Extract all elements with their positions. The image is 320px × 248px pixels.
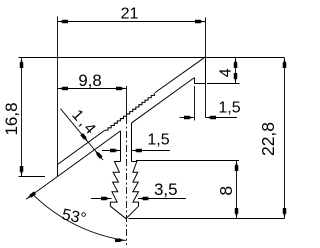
dimension 1,5 hook extension line — [194, 86, 196, 121]
profile hook notch bottom — [195, 83, 206, 85]
dimension 1,5 hook line — [180, 117, 195, 119]
stem centreline — [126, 86, 128, 117]
stem left wall — [120, 131, 122, 162]
svg-text:1,5: 1,5 — [147, 132, 169, 149]
dimension 1,4 leader line — [61, 109, 104, 160]
stem right wall — [131, 123, 133, 162]
dimension 21 right extension line — [205, 18, 207, 118]
svg-text:21: 21 — [121, 5, 139, 22]
svg-text:22,8: 22,8 — [258, 122, 278, 156]
dimension 16,8 line — [21, 58, 23, 177]
dimension 16,8 bottom extension line — [19, 176, 46, 178]
dimension 53deg leg line — [26, 177, 58, 200]
svg-text:9,8: 9,8 — [78, 71, 101, 90]
profile top edge serrated section — [105, 93, 154, 130]
dimension 4 bottom extension line — [207, 83, 240, 85]
svg-text:1,5: 1,5 — [218, 100, 240, 117]
profile bottom edge right of stem — [132, 78, 195, 123]
dimension 9,8 line — [58, 88, 127, 90]
dimension 21 line — [58, 21, 206, 23]
profile top edge smooth left section — [58, 130, 106, 164]
dimension 4 line — [235, 58, 237, 84]
dimension 8 line — [236, 161, 238, 219]
profile top edge smooth right section — [155, 57, 206, 93]
dimension 53deg arc — [33, 194, 126, 240]
profile bottom edge left of stem — [58, 131, 121, 177]
dimension 3,5 line — [91, 198, 112, 200]
stem fir-tree barbs — [110, 162, 138, 219]
profile right edge — [205, 57, 207, 84]
profile hook notch left wall — [194, 78, 196, 84]
svg-text:16,8: 16,8 — [2, 102, 21, 135]
dimension 1,5 stem line — [102, 150, 121, 152]
svg-text:4: 4 — [218, 68, 235, 77]
profile left end face — [57, 165, 59, 177]
dimension 22,8 bottom extension line — [129, 218, 285, 220]
svg-text:3,5: 3,5 — [154, 180, 178, 199]
svg-text:8: 8 — [216, 186, 236, 196]
dimension 16,8 top extension line — [19, 57, 285, 59]
dimension 8 top extension line — [136, 160, 239, 162]
dimension 22,8 line — [284, 58, 286, 219]
dimension 21 left extension line — [57, 17, 59, 177]
